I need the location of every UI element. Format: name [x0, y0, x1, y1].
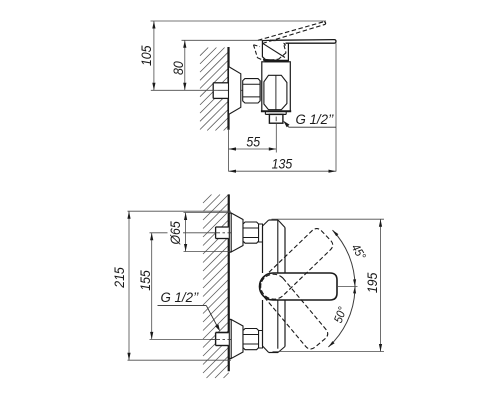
G 1/2 label with leader (top view) — [283, 112, 336, 128]
svg-text:G 1/2’’: G 1/2’’ — [161, 290, 200, 305]
extension line top (for 105) — [151, 20, 327, 22]
svg-text:105: 105 — [138, 45, 154, 66]
grip dashed (raised position, top view) — [254, 45, 287, 61]
lower washer (bottom view) — [259, 331, 263, 349]
extension line top (215) — [128, 210, 232, 212]
outlet collar (top view) — [265, 111, 286, 114]
grip silhouette lines inside cap (top view) — [263, 42, 287, 62]
upper washer (bottom view) — [259, 224, 263, 242]
wall hatching (top view) — [200, 48, 229, 131]
lower supply pipe stub (bottom view) — [216, 333, 229, 346]
svg-text:G 1/2’’: G 1/2’’ — [296, 112, 335, 127]
dimension 55 — [229, 134, 277, 151]
lever arm dashed (raised position, top view) — [258, 22, 326, 44]
washer between nut and body (top view) — [260, 81, 262, 101]
lower inlet centreline — [150, 338, 264, 340]
extension line bottom (215) — [128, 359, 232, 361]
handle solid (bottom view, horizontal) — [260, 273, 338, 300]
angle dimension arc — [328, 230, 357, 347]
wall face line (top view) — [227, 47, 229, 130]
supply pipe stub behind wall (top view) — [213, 83, 228, 99]
extension line below wall (left of 55/135) — [228, 130, 230, 172]
dimension 195 — [364, 219, 382, 351]
upper eccentric cone (bottom view) — [229, 213, 243, 252]
mixer body plate (top view) — [261, 62, 291, 112]
extension line top (195) — [272, 218, 385, 220]
svg-text:135: 135 — [272, 156, 293, 172]
upper inlet centreline — [150, 232, 264, 234]
upper hex nut (bottom view) — [243, 222, 259, 243]
svg-text:215: 215 — [111, 267, 127, 289]
handle dashed up 45deg (bottom view) — [255, 226, 335, 305]
shower outlet stub G1/2 (top view) — [269, 114, 283, 123]
svg-text:155: 155 — [137, 270, 153, 291]
svg-text:Ø65: Ø65 — [167, 221, 183, 246]
svg-text:80: 80 — [170, 61, 186, 75]
handle dashed down 50deg (bottom view) — [255, 269, 330, 352]
inlet centreline (top view) — [151, 89, 247, 91]
dimension 135 — [229, 156, 337, 173]
extension line bottom (195) — [273, 351, 385, 353]
hex boss on body (top view) — [264, 75, 287, 109]
extension lines (dia 65) — [184, 213, 232, 252]
lower hex nut (bottom view) — [243, 329, 259, 350]
svg-text:55: 55 — [246, 134, 260, 150]
dimension 155 — [137, 233, 153, 340]
lever arm solid (top view) — [270, 40, 336, 44]
extension line (for 80) — [182, 39, 263, 41]
svg-text:45°: 45° — [348, 242, 368, 263]
lower eccentric cone (bottom view) — [229, 320, 243, 359]
dimension 80 — [170, 40, 186, 90]
dimension dia65 — [167, 213, 187, 252]
G 1/2 label with leader (bottom view) — [158, 290, 221, 332]
extension line below outlet (55 right) — [275, 123, 277, 152]
body tube (bottom view) — [263, 220, 286, 353]
wall hatching (bottom view) — [203, 195, 229, 379]
extension line from lever end (135 right) — [335, 43, 337, 171]
wall face line (bottom view) — [228, 194, 230, 371]
svg-text:195: 195 — [364, 272, 380, 293]
upper supply pipe stub (bottom view) — [216, 227, 229, 239]
handle base cap (top view) — [262, 40, 288, 61]
eccentric cover cone (top view) — [229, 67, 241, 115]
dimension 215 — [111, 211, 130, 360]
dimension 105 — [138, 21, 155, 90]
hex connection nut (top view) — [243, 79, 260, 103]
